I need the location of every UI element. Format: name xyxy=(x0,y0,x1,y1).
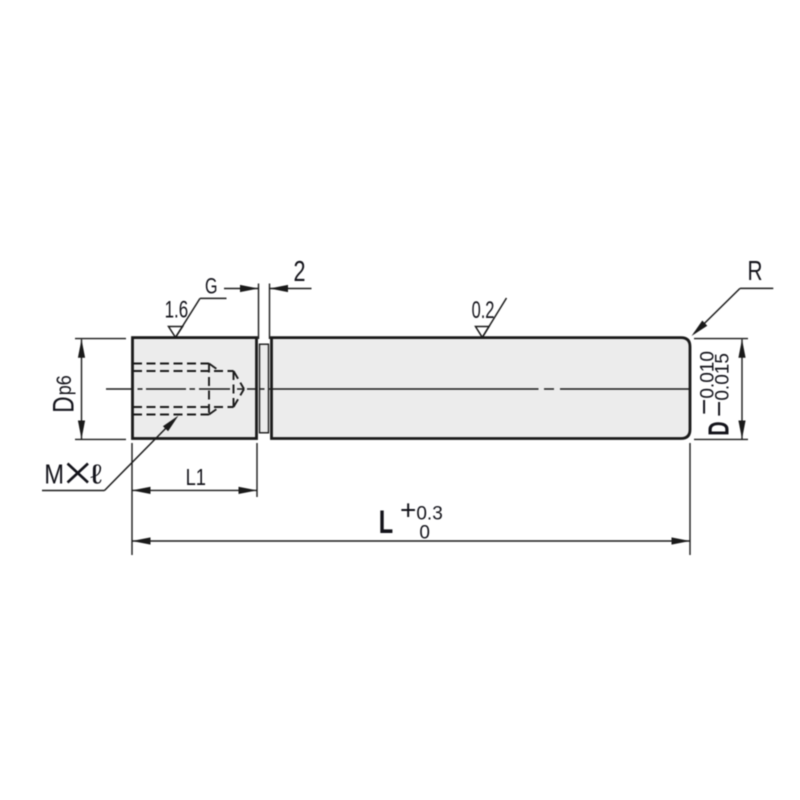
svg-text:M: M xyxy=(44,458,64,489)
svg-text:ℓ: ℓ xyxy=(90,458,102,489)
dimension Dp6 (left diameter) extension lines xyxy=(75,339,126,440)
dimension L extension lines xyxy=(132,443,690,555)
radius leader line xyxy=(694,288,773,333)
svg-text:L: L xyxy=(379,504,393,540)
groove width dimension "2": extension lines xyxy=(224,284,312,340)
dimension D arrowheads xyxy=(738,339,745,358)
dimension L1 arrowheads xyxy=(132,487,151,494)
drill depth end line xyxy=(233,371,235,407)
svg-text:2: 2 xyxy=(294,256,306,288)
thread callout arrowhead xyxy=(163,416,179,432)
groove dimension lines xyxy=(224,288,259,290)
dimension Dp6 dimension line xyxy=(81,339,83,439)
tapped hole: thread major diameter (hidden lines) xyxy=(133,364,244,415)
svg-text:0.2: 0.2 xyxy=(472,297,495,324)
radius leader arrowhead xyxy=(692,321,708,337)
dimension L line xyxy=(132,540,690,542)
drill point cone xyxy=(234,371,245,389)
dimension D label with tolerances -0.010/-0.015 xyxy=(704,421,736,435)
tapped hole: drill minor diameter (hidden lines) xyxy=(133,370,234,372)
svg-text:D: D xyxy=(48,397,81,413)
surface finish symbol 0.2 on shaft xyxy=(476,298,507,337)
svg-text:R: R xyxy=(748,255,763,286)
shaft head block (large diameter section) xyxy=(133,338,257,439)
svg-text:L1: L1 xyxy=(186,464,206,490)
centerline (dash-dot axis) xyxy=(106,388,690,390)
dimension L arrowheads xyxy=(132,537,151,544)
svg-text:p6: p6 xyxy=(53,375,76,395)
svg-text:1.6: 1.6 xyxy=(165,297,189,324)
surface finish symbol 1.6 on head xyxy=(169,298,227,337)
thread callout leader xyxy=(42,424,170,491)
svg-text:0: 0 xyxy=(419,522,430,543)
shaft body (long cylinder, rounded right end R) xyxy=(272,338,691,439)
undercut groove G xyxy=(260,344,269,433)
groove dimension arrowheads xyxy=(240,285,259,292)
dimension D (right diameter) extension lines xyxy=(694,339,748,440)
dimension L1 extension line xyxy=(132,443,257,497)
thread runout diagonals xyxy=(209,364,220,372)
thread depth end line xyxy=(208,364,210,415)
dimension D line xyxy=(741,339,743,439)
dimension Dp6 label xyxy=(48,375,81,413)
svg-text:D: D xyxy=(704,421,736,435)
svg-text:G: G xyxy=(205,274,218,299)
dimension Dp6 arrowheads xyxy=(78,339,85,358)
dimension L1 line xyxy=(132,489,257,491)
